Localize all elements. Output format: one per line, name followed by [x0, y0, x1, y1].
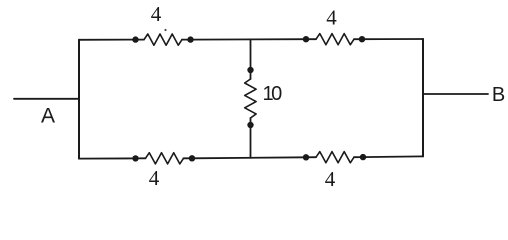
junction dot: resistor R5 right terminal [360, 154, 366, 160]
wire: bottom rail centre segment (R4 to R5 through node D) [192, 157, 306, 158]
svg-text:4: 4 [325, 167, 336, 190]
wire: R4 left lead [136, 157, 146, 159]
wire: left terminal lead to node A [14, 98, 79, 100]
wire: right terminal lead to node B [423, 93, 488, 95]
wire: top rail left segment [79, 39, 136, 41]
svg-text:4: 4 [326, 6, 337, 30]
resistor R2 (4 ohm, top-right) zigzag [316, 34, 354, 45]
stray mark (tiny dot above R1) [164, 29, 166, 31]
junction dot: resistor R1 right terminal [187, 36, 193, 42]
resistor R5 (4 ohm, bottom-right) zigzag [316, 152, 354, 163]
wire: bottom rail left segment [79, 157, 136, 159]
wire: top rail right segment [362, 38, 423, 40]
wire: R5 left lead [306, 156, 316, 158]
junction dot: resistor R2 right terminal [359, 36, 365, 42]
wire: R2 right lead [354, 38, 362, 40]
wire: middle branch upper segment (node C down to R3) [250, 40, 252, 80]
wire: bottom rail right segment [363, 155, 423, 158]
svg-text:A: A [41, 105, 55, 128]
wire: middle branch lower segment (R3 down to node D) [250, 118, 252, 158]
junction dot: resistor R2 left terminal [303, 36, 309, 42]
resistor R1 (4 ohm, top-left) zigzag [144, 34, 182, 45]
wire: right vertical bus [422, 39, 424, 156]
wire: R2 left lead [306, 38, 316, 40]
svg-text:10: 10 [263, 83, 283, 105]
wire: left vertical bus [78, 40, 80, 159]
junction dot: resistor R4 right terminal [189, 155, 195, 161]
svg-text:B: B [492, 84, 505, 106]
wire: R4 right lead [184, 157, 193, 159]
svg-text:4: 4 [151, 2, 162, 26]
junction dot: resistor R5 left terminal [303, 154, 309, 160]
wire: R1 left lead [136, 39, 145, 41]
resistor R3 (10 ohm, middle) zigzag [245, 79, 256, 118]
wire: R5 right lead [354, 156, 363, 158]
resistor R4 (4 ohm, bottom-left) zigzag [146, 153, 184, 164]
junction dot: resistor R3 bottom terminal [247, 122, 253, 128]
junction dot: resistor R3 top terminal [247, 67, 253, 73]
junction dot: resistor R1 left terminal [132, 36, 138, 42]
wire: top rail centre segment (R1 to R2 through node C) [191, 38, 307, 40]
junction dot: resistor R4 left terminal [132, 155, 138, 161]
wire: R1 right lead [182, 39, 191, 41]
svg-text:4: 4 [149, 166, 160, 190]
